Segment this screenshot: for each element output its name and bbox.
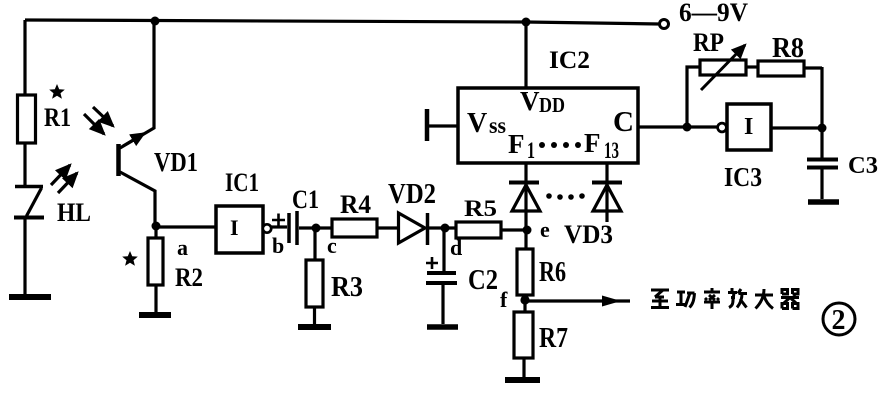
svg-text:b: b [272,233,284,258]
node e junction [523,226,532,235]
svg-text:HL: HL [57,198,91,227]
node junction at IC2 output [683,123,692,132]
transistor VD1 [119,22,156,226]
inverter IC3 [718,104,771,150]
node supply terminal [660,20,669,29]
label plus of C1 [272,214,285,227]
resistor R4 [332,219,377,237]
svg-text:VD3: VD3 [564,220,613,249]
label dots between F pins [539,142,581,148]
svg-text:R6: R6 [539,257,566,288]
svg-text:IC3: IC3 [724,162,762,192]
node c junction [312,224,321,233]
svg-text:e: e [540,217,550,242]
svg-text:C3: C3 [848,153,878,179]
svg-text:6—9V: 6—9V [679,0,748,27]
svg-text:V: V [467,108,487,139]
wire R4 to VD2 [377,226,397,229]
capacitor C3 [807,160,838,168]
wire R8 to right vertical down to node [804,67,822,128]
wire node to C3 [820,128,823,160]
svg-text:R5: R5 [464,196,497,221]
svg-text:ss: ss [489,113,506,138]
label a [177,235,188,260]
label c [327,233,337,258]
inverter IC1 [216,206,271,253]
ground left [9,294,51,300]
wire node e to R6 [524,230,527,249]
label I of IC1 [230,215,239,240]
label VDD pin [520,86,565,117]
label dots between VD3 diodes [546,193,585,200]
label IC3 [724,162,762,192]
wire feedback left vertical [687,67,700,127]
diode VD2 [399,213,428,245]
svg-text:1: 1 [527,138,535,163]
resistor R2 [148,238,163,285]
svg-text:RP: RP [693,28,724,57]
node Vss terminal bar [425,109,430,141]
node VDD junction on rail [522,18,531,27]
svg-text:a: a [177,235,188,260]
label F1 pin [508,129,535,163]
wire Vss stub [428,124,458,127]
label HL light arrows [51,165,77,193]
resistor R6 [517,249,533,295]
label to power amplifier (Chinese) [651,288,799,309]
diode VD3 left [509,163,540,230]
wire output arrow from node f [526,299,630,302]
wire HL to ground [23,217,26,294]
label VD1 light arrows [84,107,113,134]
label R5 [464,196,497,221]
node a junction [152,222,161,231]
label star R2 [122,251,138,266]
svg-text:I: I [230,215,239,240]
label d [450,235,462,260]
wire node a to IC1 [156,225,216,228]
resistor R3 [306,260,323,307]
diode VD3 right [592,163,622,222]
wire RP to R8 [746,65,758,68]
LED HL [14,187,44,218]
svg-text:R1: R1 [44,103,71,132]
resistor R5 [456,222,501,238]
svg-text:R7: R7 [539,323,568,354]
label 6-9V [679,0,748,27]
wire IC1 to C1 [271,225,287,228]
label b [272,233,284,258]
ground under C2 [427,324,458,330]
node d junction [441,224,450,233]
svg-text:C: C [613,106,634,138]
resistor R8 [758,61,804,76]
resistor R7 [514,312,533,358]
label VD2 [388,179,436,210]
label IC2 [549,47,590,74]
label star R1 [49,84,65,99]
svg-text:I: I [744,114,753,140]
svg-text:VD1: VD1 [154,147,198,177]
label F13 pin [584,128,619,163]
svg-text:IC1: IC1 [225,168,259,197]
wire C3 to ground [820,168,823,199]
svg-text:C2: C2 [468,265,498,296]
wire node c down to R3 [313,228,316,260]
label RP [693,28,724,57]
label f [500,287,508,312]
wire R3 to ground [313,307,316,324]
label C2 [468,265,498,296]
wire IC3 output to node [771,126,822,129]
wire node f to R7 [523,300,526,312]
svg-text:VD2: VD2 [388,179,436,210]
node f junction [520,295,529,304]
wire R1 to HL [23,143,26,187]
node junction at IC3 output [818,124,827,133]
label R3 [331,272,363,303]
wire C output of IC2 to IC3 [638,125,719,128]
svg-text:R8: R8 [772,33,804,64]
ground under R2 [139,312,171,318]
IC2 box [458,88,638,163]
label e [540,217,550,242]
label VD1 [154,147,198,177]
label R7 [539,323,568,354]
wire VDD supply [524,22,527,88]
label R1 [44,103,71,132]
svg-text:R3: R3 [331,272,363,303]
ground under R7 [505,377,540,383]
wire top power rail [25,20,659,24]
label R6 [539,257,566,288]
label I of IC3 [744,114,753,140]
wire R6 to node f [523,295,526,300]
label C1 [292,185,319,214]
wire left vertical from rail to R1 [23,20,26,95]
svg-text:F: F [508,129,525,159]
svg-text:f: f [500,287,508,312]
wire R7 to ground [522,358,525,377]
label plus of C2 [426,257,438,269]
label R2 [175,263,203,292]
svg-text:DD: DD [539,93,565,117]
wire C2 to ground [441,285,444,324]
svg-text:R4: R4 [340,190,371,219]
svg-text:13: 13 [604,138,619,163]
label C3 [848,153,878,179]
wire C1 to node c [299,226,332,229]
ground under C3 [808,199,839,205]
wire R5 to node e [501,228,527,231]
capacitor C1 [289,211,297,245]
capacitor C2 [426,273,457,283]
svg-text:R2: R2 [175,263,203,292]
label R4 [340,190,371,219]
label VD1 emitter arrow [123,134,144,147]
label IC1 [225,168,259,197]
ground under R3 [298,324,331,330]
label HL [57,198,91,227]
node junction rail-collector [151,17,160,26]
potentiometer RP [700,45,746,90]
wire node d down to C2 [442,228,445,271]
svg-text:V: V [520,86,540,116]
label figure number 2 [823,303,855,335]
resistor R1 [18,95,36,143]
wire VD2 to node d [429,226,456,229]
label Vss pin [467,108,506,139]
wire node a to R2 [154,226,157,238]
svg-text:F: F [584,128,601,158]
svg-text:2: 2 [832,305,846,336]
svg-text:C1: C1 [292,185,319,214]
svg-text:IC2: IC2 [549,47,590,74]
label VD3 [564,220,613,249]
label C pin [613,106,634,138]
wire R2 to ground [154,285,157,312]
label R8 [772,33,804,64]
